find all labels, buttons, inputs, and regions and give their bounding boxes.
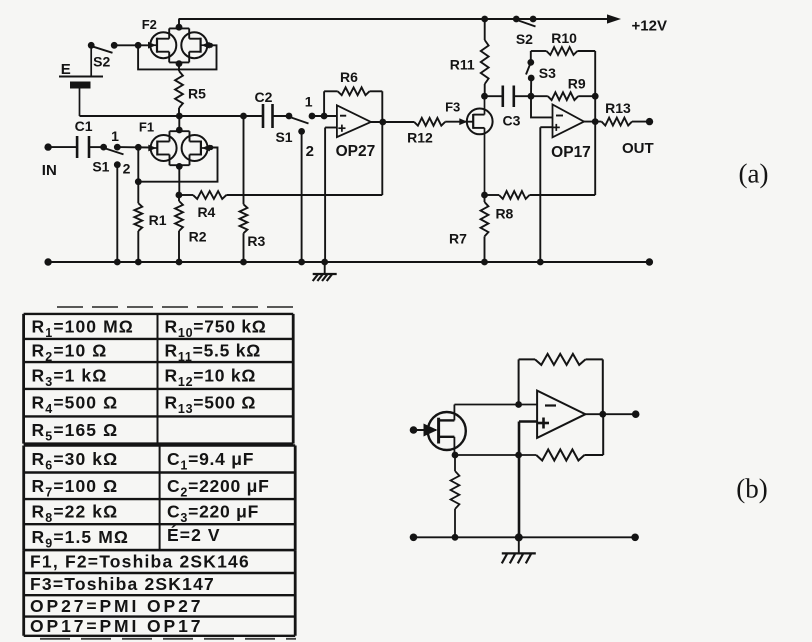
OP17 output node and column <box>584 96 602 195</box>
svg-text:R13: R13 <box>605 100 631 116</box>
svg-text:OP17: OP17 <box>551 144 591 161</box>
(b) output wire <box>585 410 639 418</box>
svg-text:OP17=PMI OP17: OP17=PMI OP17 <box>30 616 203 636</box>
svg-text:OP27: OP27 <box>336 143 376 160</box>
svg-text:+12V: +12V <box>632 18 667 35</box>
svg-text:S1: S1 <box>275 129 292 145</box>
JFET F3 <box>467 96 493 195</box>
table section 1 borders <box>24 314 294 444</box>
resistor R6 feedback loop <box>321 87 386 195</box>
scan artifact line below table <box>40 638 296 640</box>
resistor R8 <box>481 191 595 199</box>
svg-text:IN: IN <box>42 162 57 179</box>
OP17 + input wire to ground <box>540 127 552 262</box>
resistor R2 <box>175 195 183 262</box>
table section 3 borders <box>24 550 296 636</box>
table section 2 borders <box>24 446 296 551</box>
svg-text:R4: R4 <box>197 204 215 220</box>
switch S2 (left, battery side) <box>88 42 151 53</box>
svg-text:C3: C3 <box>503 113 521 129</box>
resistor R5 <box>175 63 183 116</box>
resistor R12 <box>414 118 473 126</box>
resistor R3 <box>240 116 248 262</box>
svg-text:R11=5.5 kΩ: R11=5.5 kΩ <box>165 341 262 365</box>
svg-text:R5=165 Ω: R5=165 Ω <box>32 420 119 444</box>
wire OP27 output to R12 <box>371 121 414 123</box>
svg-text:C2=2200 μF: C2=2200 μF <box>167 476 270 500</box>
OP27 + input wire to ground <box>325 128 337 263</box>
ground rail (a) <box>44 258 653 265</box>
resistor R10 <box>531 47 595 96</box>
resistor R9 <box>531 92 599 100</box>
svg-text:R9=1.5 MΩ: R9=1.5 MΩ <box>32 527 130 551</box>
svg-text:F1: F1 <box>139 119 154 134</box>
IN terminal <box>44 143 77 150</box>
svg-text:2: 2 <box>306 143 314 160</box>
wire: F2 drain stub to rail <box>178 19 180 28</box>
svg-text:C1=9.4 μF: C1=9.4 μF <box>167 449 254 473</box>
svg-text:S2: S2 <box>516 31 533 47</box>
(b) source node and bottom resistor <box>452 414 604 460</box>
component value table <box>57 306 299 308</box>
ground symbol (b) <box>518 537 520 553</box>
OP17 - input wire from C3 node <box>531 96 553 117</box>
(b) wire drain to op-amp - input <box>454 401 537 408</box>
svg-text:F3: F3 <box>445 100 460 115</box>
switch S1 (input) <box>100 144 123 262</box>
svg-text:R3: R3 <box>247 233 265 249</box>
op-amp OP27 <box>337 105 371 137</box>
switch S3 <box>526 59 535 96</box>
svg-text:S1: S1 <box>92 159 109 175</box>
svg-text:(a): (a) <box>739 159 769 189</box>
(b) op-amp <box>537 391 585 438</box>
svg-text:F1, F2=Toshiba 2SK146: F1, F2=Toshiba 2SK146 <box>30 552 250 572</box>
resistor R7 <box>481 195 489 262</box>
svg-text:S2: S2 <box>93 53 110 69</box>
battery E <box>59 45 103 116</box>
svg-text:R12=10 kΩ: R12=10 kΩ <box>165 366 257 390</box>
svg-text:R1: R1 <box>149 212 167 228</box>
resistor R13 <box>602 118 654 126</box>
ground symbol (a) <box>324 262 326 274</box>
svg-text:1: 1 <box>111 128 119 144</box>
(b) + input wire to ground <box>519 422 537 538</box>
resistor R1 <box>134 182 142 262</box>
svg-text:OP27=PMI OP27: OP27=PMI OP27 <box>30 596 203 616</box>
svg-text:R5: R5 <box>188 86 206 102</box>
svg-text:2: 2 <box>123 161 131 177</box>
svg-text:R13=500 Ω: R13=500 Ω <box>165 393 257 417</box>
svg-text:R8=22 kΩ: R8=22 kΩ <box>32 502 119 526</box>
capacitor C2 <box>263 104 289 128</box>
dual JFET F1 <box>148 127 210 170</box>
svg-text:R4=500 Ω: R4=500 Ω <box>32 393 119 417</box>
resistor R4 and wire to OP27 output column <box>179 191 382 199</box>
svg-text:S3: S3 <box>539 65 556 81</box>
svg-text:R12: R12 <box>407 130 433 146</box>
switch S1 (second, before OP27) <box>286 113 337 262</box>
svg-text:É=2 V: É=2 V <box>167 524 221 545</box>
svg-text:R10: R10 <box>551 30 577 46</box>
capacitor C1 <box>77 136 104 158</box>
svg-text:R3=1 kΩ: R3=1 kΩ <box>32 366 108 390</box>
F1 drain stub from mid rail <box>178 116 180 131</box>
capacitor C3 <box>485 86 535 108</box>
F2 gate tie wire (U-shape) <box>135 42 217 70</box>
+12V supply rail <box>179 14 622 23</box>
svg-text:R6=30 kΩ: R6=30 kΩ <box>32 449 119 473</box>
(b) input terminal <box>410 424 438 437</box>
svg-text:F2: F2 <box>142 17 157 32</box>
svg-text:C3=220 μF: C3=220 μF <box>167 502 259 526</box>
svg-text:E: E <box>61 61 71 78</box>
svg-text:R7=100 Ω: R7=100 Ω <box>32 476 119 500</box>
dual JFET F2 <box>148 24 210 67</box>
svg-text:OUT: OUT <box>622 140 654 157</box>
F1 source wire down to R2 node <box>176 165 183 198</box>
svg-text:R2: R2 <box>189 229 207 245</box>
svg-text:R7: R7 <box>449 231 467 247</box>
(b) top feedback resistor <box>519 354 603 414</box>
svg-text:R2=10 Ω: R2=10 Ω <box>32 341 108 365</box>
svg-text:R10=750 kΩ: R10=750 kΩ <box>165 316 267 340</box>
svg-text:R6: R6 <box>340 69 358 85</box>
op-amp OP17 <box>553 105 585 138</box>
resistor R11 <box>481 16 489 100</box>
(b) bottom rail <box>410 533 639 541</box>
mid rail wire (battery to C2) <box>80 113 264 120</box>
svg-text:(b): (b) <box>736 474 767 504</box>
wire S1 to F1 gate <box>117 144 151 151</box>
svg-text:1: 1 <box>305 94 313 110</box>
svg-text:C1: C1 <box>75 118 93 134</box>
switch S2 (right, on +12V rail) <box>513 16 537 27</box>
svg-text:R9: R9 <box>568 76 586 92</box>
svg-text:C2: C2 <box>255 89 273 105</box>
(b) source resistor to ground rail <box>451 455 460 537</box>
F1 gate tie wire (U-shape) <box>135 145 218 185</box>
svg-text:R11: R11 <box>450 56 475 72</box>
svg-text:R1=100 MΩ: R1=100 MΩ <box>32 316 134 340</box>
(b) JFET <box>428 405 466 456</box>
svg-text:F3=Toshiba 2SK147: F3=Toshiba 2SK147 <box>30 574 215 594</box>
svg-text:R8: R8 <box>495 205 513 221</box>
